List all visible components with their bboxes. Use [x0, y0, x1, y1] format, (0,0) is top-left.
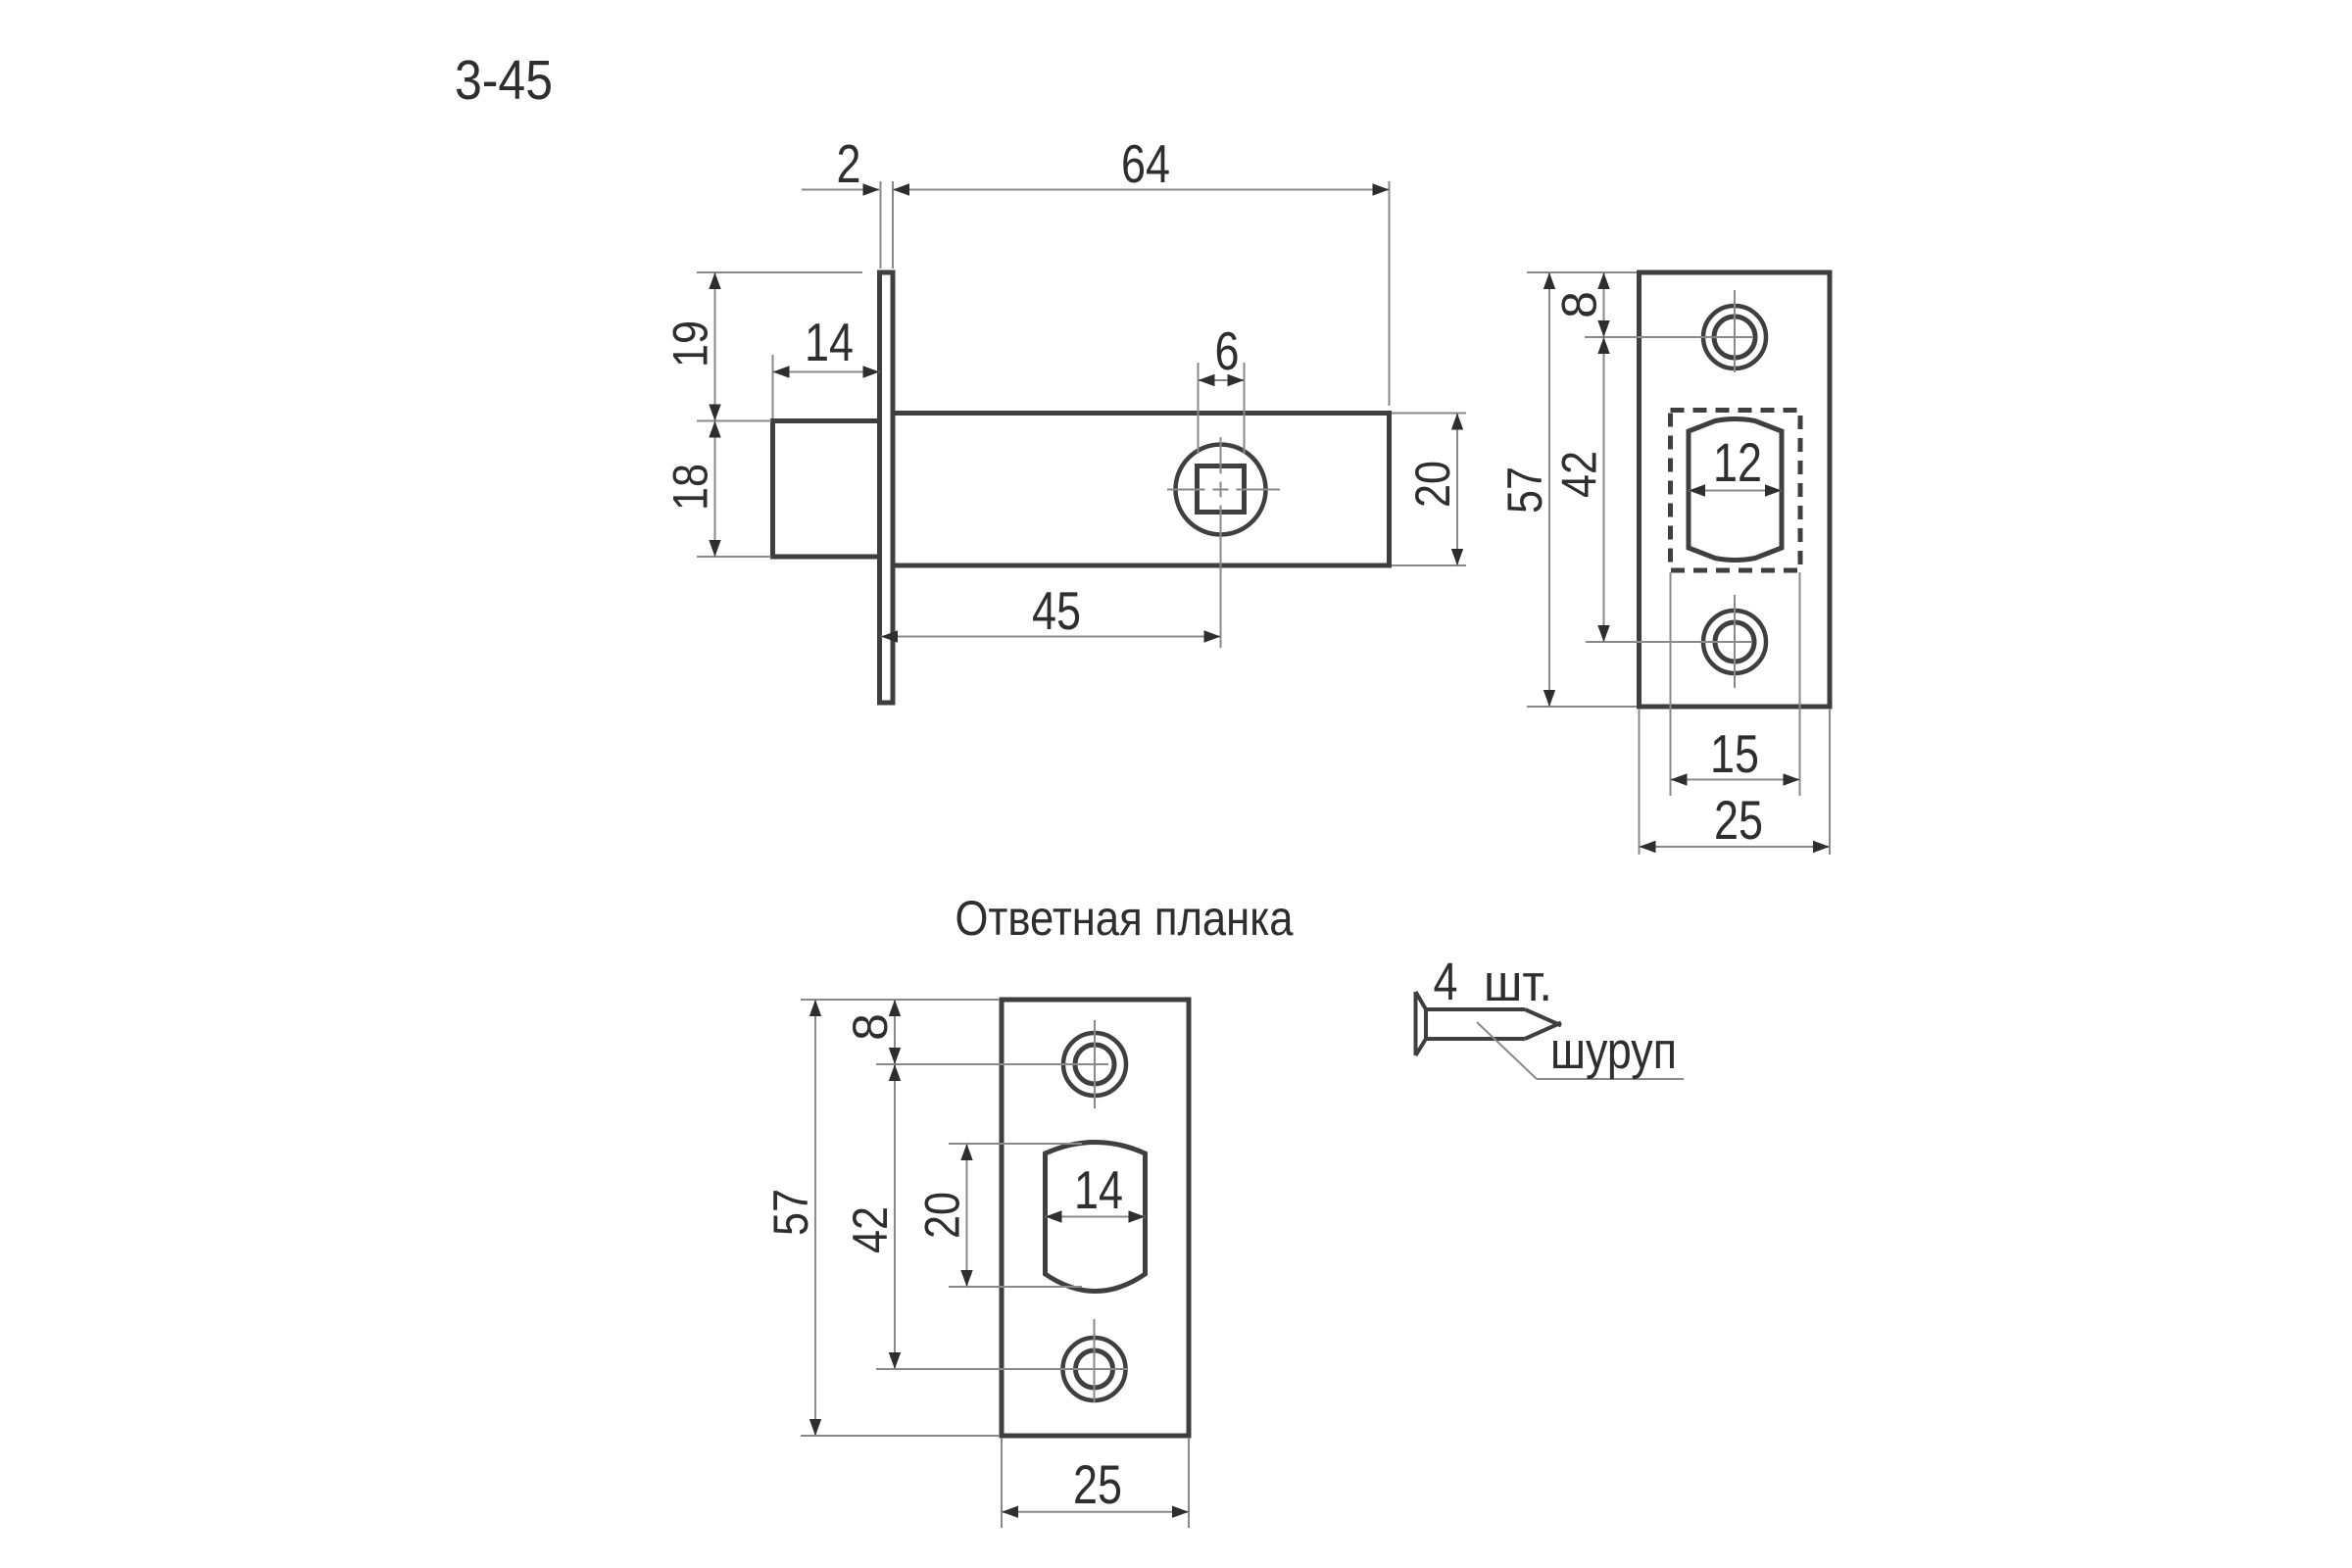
svg-text:25: 25: [1714, 789, 1763, 851]
svg-text:шуруп: шуруп: [1550, 1022, 1677, 1080]
svg-text:6: 6: [1215, 320, 1240, 381]
svg-text:4: 4: [1434, 953, 1458, 1011]
svg-text:57: 57: [763, 1189, 818, 1236]
svg-text:20: 20: [915, 1192, 970, 1239]
svg-text:42: 42: [1552, 451, 1607, 498]
svg-text:42: 42: [843, 1206, 898, 1253]
svg-text:шт.: шт.: [1484, 955, 1552, 1012]
svg-text:Ответная планка: Ответная планка: [955, 891, 1294, 946]
svg-text:2: 2: [837, 133, 861, 194]
svg-text:64: 64: [1121, 133, 1170, 194]
svg-text:20: 20: [1405, 461, 1460, 508]
svg-text:8: 8: [843, 1013, 898, 1041]
svg-text:14: 14: [1074, 1159, 1123, 1220]
svg-text:25: 25: [1073, 1453, 1122, 1515]
svg-text:12: 12: [1713, 431, 1762, 493]
svg-text:3-45: 3-45: [455, 49, 553, 112]
svg-text:8: 8: [1552, 291, 1607, 318]
svg-text:18: 18: [663, 464, 718, 511]
svg-text:57: 57: [1497, 466, 1552, 514]
svg-text:14: 14: [805, 312, 854, 372]
svg-text:15: 15: [1710, 723, 1759, 784]
svg-text:19: 19: [663, 320, 718, 367]
svg-text:45: 45: [1032, 580, 1081, 641]
